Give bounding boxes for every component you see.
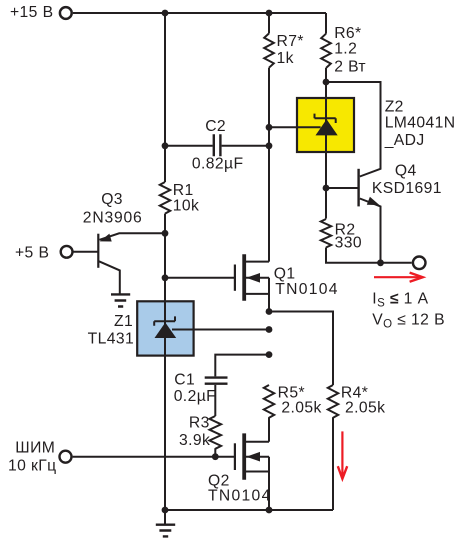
- wire left rail x=165 upper: [164, 13, 166, 182]
- svg-text:Q4: Q4: [395, 163, 417, 180]
- node Z1 ref junction: [266, 326, 273, 333]
- svg-text:0.82µF: 0.82µF: [192, 156, 244, 173]
- svg-text:10 кГц: 10 кГц: [8, 458, 57, 475]
- svg-text:330: 330: [335, 235, 362, 252]
- svg-text:_ADJ: _ADJ: [384, 132, 425, 149]
- node ADJ junction: [266, 124, 273, 131]
- wire Q2 source stub: [246, 457, 269, 510]
- wire R2 bottom to output: [326, 248, 412, 263]
- transistor Q3 base bar: [97, 234, 99, 268]
- node output junction: [377, 259, 384, 266]
- resistor R6: [321, 34, 331, 68]
- diode Z2 LM4041 cathode bar: [315, 114, 336, 123]
- node bottom middle: [266, 507, 273, 514]
- svg-text:1.2: 1.2: [334, 40, 357, 57]
- svg-text:2.05k: 2.05k: [281, 400, 321, 417]
- svg-text:2N3906: 2N3906: [83, 210, 143, 227]
- arrow Q2 body: [246, 452, 260, 462]
- transistor Q2 channel bar: [242, 433, 246, 479]
- wire top rail: [73, 12, 326, 14]
- wire C1 branch top: [215, 355, 269, 377]
- svg-text:LM4041N: LM4041N: [385, 115, 456, 132]
- wire middle rail x=269 to Q1 drain: [268, 68, 270, 262]
- wire Q1 body stub: [246, 277, 269, 279]
- resistor R7: [264, 33, 274, 67]
- svg-text:+15 В: +15 В: [10, 4, 53, 21]
- transistor Q1 gate line: [234, 265, 236, 291]
- svg-text:2 Вт: 2 Вт: [334, 58, 366, 75]
- transistor Q4 base bar: [357, 169, 359, 207]
- Z2 yellow highlight box: [297, 98, 354, 152]
- svg-text:C2: C2: [205, 118, 226, 135]
- svg-text:ШИМ: ШИМ: [15, 439, 55, 456]
- diode Z1 anode triangle: [155, 323, 177, 339]
- wire Q4 base: [326, 187, 359, 189]
- resistor R1: [160, 182, 170, 214]
- svg-text:1k: 1k: [277, 50, 294, 67]
- resistor R3: [210, 416, 222, 449]
- wire R4 bottom: [332, 417, 334, 510]
- svg-text:KSD1691: KSD1691: [372, 180, 442, 197]
- terminal +5 V circle: [61, 246, 73, 258]
- wire Q3 collector: [99, 261, 120, 294]
- wire left rail x=165 lower: [164, 214, 166, 510]
- wire ground stem: [164, 510, 166, 525]
- wire R4 branch top: [269, 312, 333, 386]
- wire Q1 drain stub: [246, 261, 269, 263]
- svg-text:TL431: TL431: [88, 330, 134, 347]
- wire R5 bottom to Q2 drain: [268, 417, 270, 442]
- wire Q4 emitter: [360, 199, 381, 263]
- Z1 blue highlight box: [137, 301, 193, 355]
- svg-text:C1: C1: [174, 372, 195, 389]
- svg-text:0.2µF: 0.2µF: [174, 388, 216, 405]
- svg-text:2.05k: 2.05k: [345, 400, 385, 417]
- diode Z2 anode triangle: [316, 119, 338, 135]
- wire Q2 body stub: [246, 456, 269, 458]
- wire Q2 drain stub: [246, 441, 269, 443]
- wire Z2 ADJ pin: [269, 126, 321, 128]
- arrow Q1 body: [246, 273, 260, 283]
- red arrow current down: [338, 431, 347, 478]
- wire R3 bottom: [214, 448, 216, 457]
- node R3 bottom junction: [212, 453, 219, 460]
- wire C2 left: [165, 145, 213, 147]
- resistor R4: [328, 385, 338, 418]
- node Q1 source junction: [266, 308, 273, 315]
- svg-text:+5 В: +5 В: [15, 244, 49, 261]
- node C1 junction: [266, 351, 273, 358]
- resistor R2: [321, 219, 331, 247]
- wire Q3 emitter: [100, 233, 166, 240]
- svg-text:R3: R3: [189, 415, 210, 432]
- svg-text:Z2: Z2: [385, 99, 404, 116]
- svg-text:R7*: R7*: [277, 33, 304, 50]
- terminal output circle: [413, 257, 426, 270]
- wire bottom rail: [165, 509, 333, 511]
- resistor R5: [264, 385, 274, 418]
- svg-text:R1: R1: [173, 182, 194, 199]
- wire C1 to R3: [214, 385, 216, 416]
- wire Q3 base: [73, 251, 98, 253]
- svg-text:Z1: Z1: [114, 313, 133, 330]
- svg-text:10k: 10k: [173, 198, 200, 215]
- node top rail left: [162, 10, 169, 17]
- svg-text:TN0104: TN0104: [275, 281, 339, 298]
- wire middle rail x=269 top segment: [268, 13, 270, 33]
- capacitor C1 plates: [205, 378, 228, 384]
- terminal PWM circle: [60, 451, 72, 463]
- svg-text:Q3: Q3: [101, 191, 123, 208]
- wire Q1 gate: [165, 277, 235, 279]
- node C2 left: [162, 142, 169, 149]
- wire Q4 collector branch: [326, 82, 381, 177]
- ground Q3 collector: [111, 294, 130, 306]
- wire C2 right: [222, 145, 269, 147]
- node C2 right: [266, 142, 273, 149]
- arrow Q3 emitter: [100, 234, 112, 242]
- capacitor C2 plates: [214, 134, 221, 156]
- wire right rail x=326 top: [325, 13, 327, 34]
- red arrow current out: [374, 273, 423, 282]
- node Q1 gate junction: [162, 274, 169, 281]
- transistor Q1 channel bar: [242, 254, 246, 300]
- svg-text:3.9k: 3.9k: [179, 432, 210, 449]
- arrow Q4 emitter: [367, 197, 380, 205]
- node R6 bottom: [323, 79, 330, 86]
- wire Z1 ref pin: [172, 329, 269, 331]
- node bottom left: [162, 507, 169, 514]
- node Q3 emitter junction: [162, 230, 169, 237]
- node Q4 base junction: [323, 185, 330, 192]
- terminal +15 V circle: [60, 7, 72, 19]
- node top rail middle: [266, 10, 273, 17]
- wire PWM to Q2 gate: [73, 456, 235, 458]
- wire right rail x=326 through Z2 box: [325, 68, 327, 219]
- transistor Q2 gate line: [234, 443, 236, 470]
- svg-text:TN0104: TN0104: [208, 488, 272, 505]
- diode Z1 cathode bar: [154, 316, 175, 325]
- ground main: [156, 525, 175, 537]
- wire Q1 source stub: [246, 278, 269, 312]
